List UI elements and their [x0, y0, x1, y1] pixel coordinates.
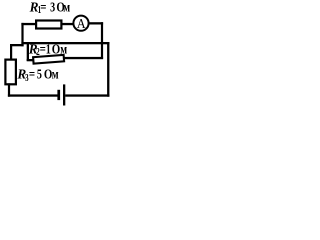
wire left horizontal to R3 branch [10, 44, 24, 46]
resistor R1 [36, 21, 61, 29]
svg-text:м: м [52, 66, 59, 82]
svg-text:=: = [29, 66, 35, 82]
resistor R2 [33, 55, 64, 64]
svg-text:м: м [63, 0, 70, 15]
wire R2 jog horizontal into box [27, 59, 35, 61]
wire R2 jog vertical from rail [27, 44, 29, 61]
wire top-left corner vertical (node A riser) [21, 23, 23, 46]
wire R2 right horizontal [64, 57, 104, 59]
svg-text:О: О [52, 41, 61, 57]
ammeter U1 circle [73, 16, 88, 31]
wire main rail y43 [21, 42, 109, 44]
battery negative short plate [57, 90, 60, 100]
label R3 = 5 Om [16, 66, 58, 83]
label R1 = 3 Om [29, 0, 70, 15]
wire bottom left segment [8, 94, 58, 96]
wire left vertical upper to R3 [10, 44, 12, 61]
wire bottom right segment [65, 94, 109, 96]
svg-text:A: A [77, 15, 86, 31]
wire left vertical lower from R3 to bottom [8, 83, 10, 96]
svg-text:5: 5 [37, 66, 42, 82]
svg-text:3: 3 [50, 0, 55, 15]
svg-text:=: = [40, 0, 46, 15]
battery positive long plate [63, 84, 65, 105]
wire top branch left segment [21, 23, 36, 25]
wire ammeter to right corner [90, 22, 104, 24]
wire R1 to ammeter [63, 23, 74, 25]
svg-text:=: = [40, 41, 46, 57]
svg-text:м: м [60, 41, 67, 57]
wire right side vertical [107, 42, 109, 97]
resistor R3 (vertical box) [5, 60, 16, 85]
svg-text:1: 1 [46, 41, 51, 57]
label R2 = 1 Om [28, 41, 67, 58]
wire right branch vertical (crosses rail, down to R2 wire) [101, 22, 103, 59]
